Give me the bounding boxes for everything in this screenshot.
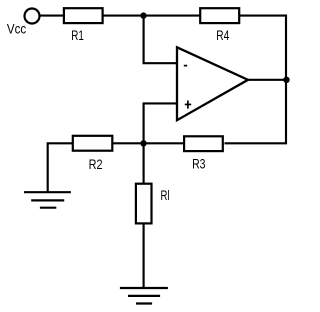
resistor Rl <box>136 184 152 224</box>
svg-text:R1: R1 <box>71 28 84 43</box>
resistor R3 <box>184 136 223 151</box>
wire Vcc terminal to R1 <box>39 15 64 17</box>
svg-text:Rl: Rl <box>161 188 170 203</box>
wire R3 to R2 through node <box>113 142 184 144</box>
ground left <box>24 192 71 208</box>
node at R1/R4 junction <box>140 12 146 18</box>
resistor R1 <box>64 8 103 23</box>
op-amp plus sign <box>185 101 191 109</box>
Vcc terminal circle <box>25 9 40 24</box>
wire op-amp output <box>246 79 287 81</box>
wire R2 to ground <box>48 143 73 192</box>
node at R2/R3/Rl junction <box>140 140 146 146</box>
svg-text:Vcc: Vcc <box>7 22 27 37</box>
wire Rl to ground <box>143 224 145 289</box>
wire node to inverting input <box>144 15 177 64</box>
svg-text:R2: R2 <box>89 157 103 172</box>
svg-text:R4: R4 <box>216 28 229 43</box>
wire R1 to R4 through node <box>103 15 200 17</box>
node at op-amp output <box>283 77 289 83</box>
resistor R4 <box>200 8 239 23</box>
op-amp minus sign <box>184 65 187 67</box>
wire node to Rl <box>143 142 145 183</box>
wire non-inverting input to node <box>144 103 177 144</box>
svg-text:R3: R3 <box>192 157 205 172</box>
wire R4 to right rail, down to R3 row <box>225 16 287 144</box>
ground bottom <box>120 288 168 304</box>
op-amp U1 <box>177 47 248 120</box>
resistor R2 <box>73 136 113 151</box>
